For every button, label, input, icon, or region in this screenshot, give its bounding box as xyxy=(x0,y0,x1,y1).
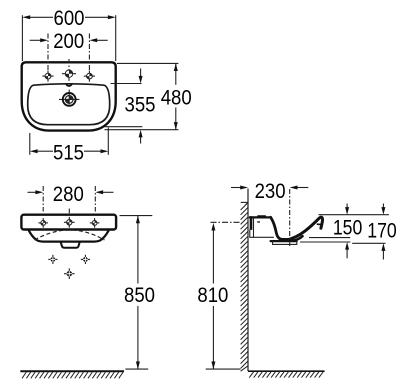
svg-text:280: 280 xyxy=(53,183,84,206)
svg-text:480: 480 xyxy=(161,87,192,110)
drain stub (elevation) xyxy=(61,242,80,248)
basin side profile xyxy=(250,216,323,245)
svg-text:355: 355 xyxy=(125,94,156,117)
back-left thin vertical xyxy=(249,230,251,237)
svg-text:230: 230 xyxy=(255,180,286,203)
back flange xyxy=(250,216,253,230)
back thin vertical xyxy=(253,218,255,237)
band-to-stub fillet xyxy=(294,239,300,241)
underbody (elevation) xyxy=(29,230,109,241)
dimension 850 xyxy=(120,216,153,370)
dimensions 150 / 170 xyxy=(300,204,389,260)
bowl falling wall and bottom xyxy=(271,217,290,239)
basin inner bowl outline (plan) xyxy=(28,84,110,125)
deck bump xyxy=(258,216,265,217)
svg-text:515: 515 xyxy=(53,141,84,164)
dimension 200 xyxy=(30,34,108,71)
svg-text:850: 850 xyxy=(124,284,155,307)
tap deck xyxy=(250,216,271,218)
dimension 810 xyxy=(206,222,241,369)
bowl rising band and front lip xyxy=(286,217,323,240)
basin outer outline (plan) xyxy=(22,62,116,130)
svg-text:810: 810 xyxy=(197,284,228,307)
overflow slot xyxy=(66,84,71,86)
dimension 480 xyxy=(105,63,179,129)
tap hole right (plan) xyxy=(84,71,95,82)
floor (left view) xyxy=(20,370,124,372)
elevation tap hole centre xyxy=(64,217,75,228)
svg-text:170: 170 xyxy=(367,220,397,243)
dimension 280 xyxy=(28,186,114,213)
rim (elevation) xyxy=(21,215,116,230)
drain stub outline xyxy=(273,242,297,245)
deck underside xyxy=(250,236,274,238)
wall top edge xyxy=(241,201,248,203)
tap hole centre (plan) xyxy=(62,59,76,81)
drain (plan) xyxy=(59,90,79,106)
dimension 355 xyxy=(105,69,143,144)
svg-text:150: 150 xyxy=(333,216,363,239)
wall hatching xyxy=(241,202,248,371)
elevation tap hole right xyxy=(90,218,100,228)
svg-text:200: 200 xyxy=(53,30,84,53)
siphon symbol centre xyxy=(64,268,75,279)
hidden bowl arc (dashed) xyxy=(35,230,105,240)
fixing hole symbol left xyxy=(48,255,57,264)
fixing hole dash xyxy=(257,221,260,222)
rim overhang bar xyxy=(317,223,321,225)
svg-text:600: 600 xyxy=(54,7,85,30)
dimension 515 xyxy=(30,128,109,155)
elevation tap hole left xyxy=(38,218,48,228)
fixing hole symbol right xyxy=(81,255,90,264)
drain stub top xyxy=(271,240,297,242)
floor (right view) xyxy=(248,370,325,372)
wall face line xyxy=(247,189,249,372)
dimension 600 xyxy=(22,15,115,61)
dimension 230 xyxy=(231,188,308,247)
tap hole left (plan) xyxy=(42,71,53,82)
